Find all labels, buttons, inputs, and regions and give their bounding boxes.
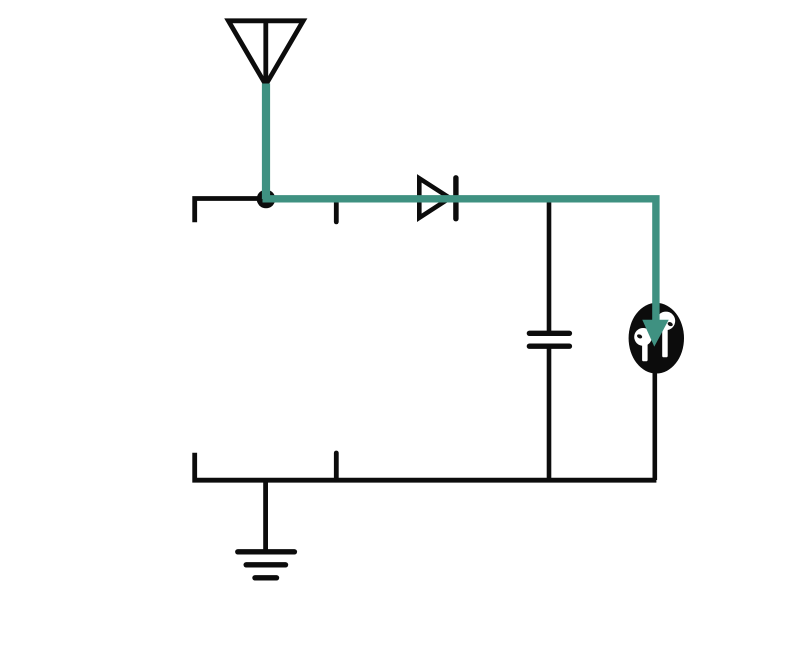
node junction dot	[257, 190, 276, 209]
left earbud	[634, 328, 652, 361]
wire bottom middle tick	[334, 453, 339, 480]
wire tap stub (top middle tick)	[334, 199, 339, 222]
earphone P1 (badge)	[629, 303, 684, 374]
wire signal rail (teal)	[263, 199, 656, 322]
wire bottom rail with left tick	[195, 453, 657, 480]
capacitor C1	[529, 203, 569, 481]
ground	[238, 480, 295, 578]
wire earphone branch	[652, 371, 657, 480]
right earbud	[657, 312, 676, 358]
antenna ANT	[228, 21, 303, 85]
wire left rail stub with tick	[195, 199, 266, 223]
diode D1	[419, 178, 456, 219]
arrowhead (current direction into earphone)	[642, 320, 668, 347]
wire antenna lead (teal)	[262, 84, 270, 200]
